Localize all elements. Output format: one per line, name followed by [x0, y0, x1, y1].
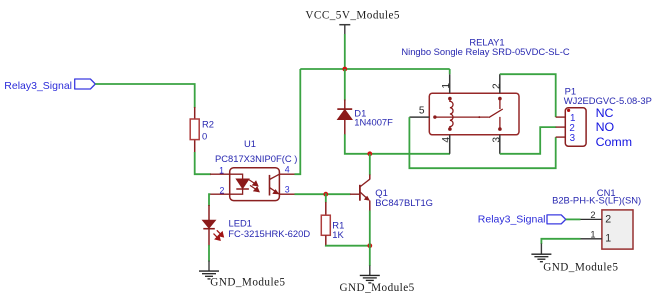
svg-text:FC-3215HRK-620D: FC-3215HRK-620D	[228, 228, 310, 239]
svg-text:1: 1	[441, 83, 452, 89]
CN1 box	[602, 210, 633, 249]
resistor R1 1K	[321, 193, 344, 245]
wire VCC rail	[300, 68, 449, 70]
relay switch blade	[489, 109, 503, 118]
svg-text:4: 4	[441, 137, 452, 143]
P1 pin 1 stub	[556, 116, 566, 118]
ground (CN1) GND_Module5	[531, 244, 618, 274]
relay pin 4	[449, 135, 451, 154]
wire port to CN1 pin2	[566, 218, 581, 220]
svg-text:NO: NO	[596, 120, 615, 134]
U1 emission arrows	[249, 180, 259, 192]
relay RELAY1	[409, 69, 519, 154]
svg-text:5: 5	[419, 105, 425, 116]
wire relay pin2 to P1 pin1	[500, 74, 556, 117]
P1 pin 2 stub	[556, 126, 566, 128]
svg-text:3: 3	[570, 133, 576, 144]
svg-text:Relay3_Signal: Relay3_Signal	[478, 213, 546, 225]
svg-text:U1: U1	[244, 138, 256, 149]
svg-text:3: 3	[285, 185, 290, 195]
relay coil	[448, 97, 452, 101]
svg-text:LED1: LED1	[229, 217, 252, 228]
pin 3	[279, 193, 295, 195]
U1 internal LED	[230, 174, 243, 179]
diode D1 1N4007F	[337, 69, 393, 135]
svg-text:1: 1	[590, 229, 595, 239]
P1 box	[565, 108, 586, 146]
svg-text:GND_Module5: GND_Module5	[210, 277, 285, 289]
LED1 arrows	[214, 230, 224, 240]
relay NC contact	[498, 97, 502, 101]
svg-text:R2: R2	[202, 119, 214, 130]
svg-text:GND_Module5: GND_Module5	[340, 282, 415, 294]
relay pin 3	[499, 135, 501, 154]
svg-text:WJ2EDGVC-5.08-3P: WJ2EDGVC-5.08-3P	[564, 95, 652, 106]
P1 pin 3 stub	[556, 136, 566, 138]
CN1 pin 2 stub	[580, 218, 602, 220]
U1 phototransistor	[269, 175, 271, 196]
svg-text:GND_Module5: GND_Module5	[543, 261, 618, 273]
svg-text:PC817X3NIP0F(C ): PC817X3NIP0F(C )	[215, 153, 297, 164]
svg-text:NC: NC	[596, 106, 614, 120]
pin 2	[210, 193, 230, 195]
connector CN1 B2B-PH-K-S	[552, 187, 641, 249]
node junction D1/Q1 collector	[367, 151, 372, 156]
svg-text:Relay3_Signal: Relay3_Signal	[4, 80, 72, 92]
ground (Q1) GND_Module5	[340, 266, 415, 294]
node junction emitter/R1	[367, 243, 372, 248]
wire port to R2	[95, 84, 194, 108]
wire U1 pin4 up to VCC rail	[295, 69, 301, 174]
svg-text:3: 3	[491, 137, 502, 143]
transistor Q1 BC847BLT1G	[350, 175, 433, 212]
pin 4	[279, 173, 295, 175]
svg-text:2: 2	[605, 213, 611, 225]
svg-text:1: 1	[605, 233, 611, 245]
relay pin 1	[449, 69, 451, 74]
svg-text:4: 4	[285, 164, 290, 174]
wire relay pin5 to P1 pin3	[409, 117, 555, 168]
svg-text:1: 1	[219, 166, 224, 176]
LED1	[203, 205, 311, 246]
CN1 pin 1 stub	[580, 238, 602, 240]
wire R1 to Q1 emitter	[326, 244, 370, 247]
P1 polarity dot	[567, 109, 570, 112]
U1 box	[230, 168, 280, 201]
wire R2 to U1 pin1	[195, 152, 211, 174]
wire D1 to relay pin4	[345, 134, 450, 154]
svg-text:2: 2	[590, 210, 595, 220]
wire relay pin3 to P1 pin2	[500, 127, 556, 154]
wire Q1 emitter to ground	[369, 211, 371, 267]
node junction base/R1	[323, 192, 328, 197]
svg-text:2: 2	[219, 185, 224, 195]
op-amp U1 optocoupler PC817	[210, 138, 297, 201]
pin 1	[210, 173, 230, 175]
relay NO contact	[498, 127, 502, 131]
relay pin 2	[499, 74, 501, 93]
port Relay3_Signal (left)	[4, 79, 95, 92]
wire CN1 pin1 to ground	[541, 239, 580, 244]
wire U1 pin3 to Q1 base	[295, 193, 351, 195]
port Relay3_Signal (right)	[478, 213, 566, 225]
resistor R2	[190, 107, 214, 153]
power flag VCC_5V_Module5	[305, 9, 400, 68]
svg-text:BC847BLT1G: BC847BLT1G	[375, 197, 433, 208]
ground (LED1) GND_Module5	[199, 261, 285, 289]
wire LED1 to ground	[208, 245, 210, 262]
relay pin 5	[409, 116, 429, 118]
node VCC junction	[342, 67, 347, 72]
relay common line pin5	[435, 116, 489, 118]
svg-text:Ningbo Songle Relay SRD-05VDC-: Ningbo Songle Relay SRD-05VDC-SL-C	[401, 46, 570, 57]
svg-text:0: 0	[202, 130, 207, 141]
svg-text:2: 2	[491, 83, 502, 89]
wire U1 pin2 to LED1	[209, 194, 210, 206]
wire Q1 collector	[369, 154, 371, 175]
connector P1 WJ2EDGVC-5.08-3P	[556, 86, 652, 149]
svg-text:Comm: Comm	[596, 135, 632, 149]
svg-text:1N4007F: 1N4007F	[354, 117, 393, 128]
svg-text:1K: 1K	[332, 229, 344, 240]
svg-text:B2B-PH-K-S(LF)(SN): B2B-PH-K-S(LF)(SN)	[552, 194, 641, 205]
relay box	[429, 93, 519, 135]
svg-text:VCC_5V_Module5: VCC_5V_Module5	[305, 9, 400, 21]
